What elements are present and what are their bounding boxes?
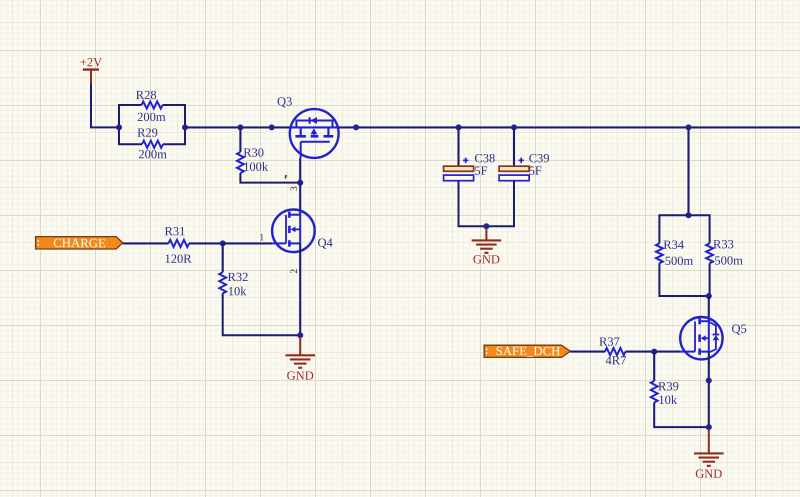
transistor Q5 xyxy=(680,317,722,359)
wire CHARGE to R31 xyxy=(123,242,169,244)
resistor R31 xyxy=(169,240,190,247)
wire C38 to gnd rail xyxy=(459,181,487,227)
pin mark Q3 gate xyxy=(284,175,287,179)
wire R39 to gnd rail xyxy=(654,403,709,428)
node Q5 source / R39 junction xyxy=(706,424,712,430)
node bus-box right xyxy=(182,124,188,130)
node Q3 source pin xyxy=(269,124,275,130)
capacitor C38 xyxy=(444,166,474,171)
wire gnd lead at x=708.8 xyxy=(708,429,710,453)
wire bus box to Q3 xyxy=(185,126,290,128)
svg-text:GND: GND xyxy=(695,467,722,481)
wire gnd lead at x=486.4 xyxy=(485,228,487,240)
resistor R30 xyxy=(237,152,244,173)
node box bottom / Q5 drain xyxy=(706,293,712,299)
svg-text:10k: 10k xyxy=(228,284,248,298)
wire SAFE_DCH to R37 xyxy=(570,351,605,353)
resistor R39 xyxy=(651,381,658,403)
svg-text:Q3: Q3 xyxy=(277,95,292,109)
node Q3 gate / Q4 drain junction xyxy=(297,180,303,186)
wire node to Q5 gate xyxy=(654,351,680,353)
wire node to R32 xyxy=(222,243,224,272)
wire bus to R30 xyxy=(239,127,241,152)
svg-text:R31: R31 xyxy=(164,224,185,238)
svg-text:Q4: Q4 xyxy=(317,236,333,250)
ground symbol xyxy=(285,354,315,356)
resistor R34 xyxy=(656,243,663,263)
svg-text:3: 3 xyxy=(290,186,300,191)
wire R30 to Q3 gate node xyxy=(240,173,300,183)
node C39 tap xyxy=(511,124,517,130)
node R39 tap xyxy=(651,349,657,355)
net label SAFE_DCH xyxy=(484,345,570,357)
wire R37 to node xyxy=(626,351,655,353)
wire bus to C39 xyxy=(513,127,515,166)
wire bus to R34/R33 box xyxy=(687,127,689,215)
svg-text:R32: R32 xyxy=(227,270,248,284)
resistor R33 xyxy=(706,243,713,263)
svg-text:+2V: +2V xyxy=(80,55,102,69)
svg-text:5F: 5F xyxy=(474,164,487,178)
wire R32 to gnd rail xyxy=(223,293,301,335)
wire parallel box R34/R33 xyxy=(659,215,709,296)
node Q5 source pin xyxy=(706,378,712,384)
node bus-box left xyxy=(116,124,122,130)
wire Q4 source down xyxy=(299,243,301,335)
resistor R28 xyxy=(142,101,163,108)
svg-text:4R7: 4R7 xyxy=(605,353,626,367)
wire node to R39 xyxy=(653,352,655,381)
wire bus to C38 xyxy=(457,127,459,166)
wire Q5 source down xyxy=(708,352,710,428)
svg-text:1: 1 xyxy=(259,233,264,243)
wire R31 to gate node xyxy=(189,242,223,244)
svg-text:2: 2 xyxy=(290,269,300,274)
svg-text:Q5: Q5 xyxy=(731,322,746,336)
svg-text:200m: 200m xyxy=(138,147,167,161)
node box top xyxy=(686,212,692,218)
node R30 tap xyxy=(237,124,243,130)
ground symbol xyxy=(472,239,502,241)
svg-text:CHARGE: CHARGE xyxy=(53,236,106,250)
node R32 tap xyxy=(220,240,226,246)
svg-text:GND: GND xyxy=(473,252,500,266)
wire Q3 gate to node xyxy=(299,158,301,183)
net label CHARGE xyxy=(36,237,123,249)
wire bus Q3 to right edge xyxy=(339,126,800,128)
wire C39 to gnd rail xyxy=(486,181,514,227)
resistor R37 xyxy=(605,348,626,355)
wire parallel box R28/R29 xyxy=(119,105,185,144)
transistor Q4 xyxy=(272,210,315,253)
wire gnd lead at x=300.2 xyxy=(299,337,301,355)
svg-text:R39: R39 xyxy=(658,379,679,393)
svg-text:R37: R37 xyxy=(599,335,620,349)
svg-text:10k: 10k xyxy=(658,393,678,407)
node Q3 drain pin xyxy=(353,124,359,130)
svg-text:100k: 100k xyxy=(243,160,269,174)
svg-text:R34: R34 xyxy=(663,238,685,252)
resistor R29 xyxy=(142,141,163,148)
transistor Q3 xyxy=(290,109,339,158)
svg-text:R29: R29 xyxy=(137,126,158,140)
node C38 tap xyxy=(456,124,462,130)
node Q4 source / R32 junction xyxy=(297,332,303,338)
wire +2V to bus corner xyxy=(91,84,119,127)
node cap gnd junction xyxy=(483,223,489,229)
wire Q5 drain xyxy=(708,296,710,321)
ground symbol xyxy=(694,452,724,454)
wire Q4 drain xyxy=(299,183,301,215)
svg-text:R33: R33 xyxy=(713,237,734,251)
svg-text:SAFE_DCH: SAFE_DCH xyxy=(496,344,561,358)
svg-text:GND: GND xyxy=(287,369,314,383)
svg-text:R30: R30 xyxy=(243,146,264,160)
svg-text:5F: 5F xyxy=(529,164,542,178)
svg-text:120R: 120R xyxy=(164,252,192,266)
svg-text:200m: 200m xyxy=(137,110,166,124)
capacitor C39 xyxy=(499,166,529,171)
svg-text:500m: 500m xyxy=(665,254,694,268)
svg-text:R28: R28 xyxy=(136,88,157,102)
resistor R32 xyxy=(219,272,226,293)
node R34/R33 tap xyxy=(686,124,692,130)
wire node to Q4 gate xyxy=(223,242,273,244)
svg-text:500m: 500m xyxy=(714,254,743,268)
